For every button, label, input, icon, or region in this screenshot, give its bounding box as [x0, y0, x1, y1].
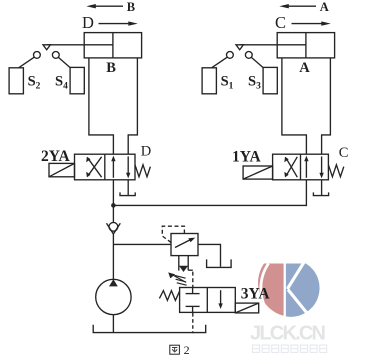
svg-text:JLCK.CN: JLCK.CN: [250, 323, 326, 345]
svg-text:S4: S4: [55, 73, 68, 91]
limit switch box S1: [202, 68, 216, 94]
svg-text:C: C: [339, 145, 349, 161]
node P junction: [111, 203, 116, 208]
wire pipe cylinder A right port to valve: [322, 58, 331, 154]
lever to switch S1: [212, 57, 227, 67]
wire arrow D direction: [99, 21, 138, 25]
wire arrow B direction: [86, 4, 123, 8]
relief valve lower stage: [179, 256, 193, 272]
svg-text:A: A: [320, 0, 329, 14]
limit switch box S2: [9, 68, 23, 94]
solenoid 3YA: [235, 303, 258, 313]
wire branch to relief valve: [113, 243, 171, 245]
wire pipe cylinder B right port to valve: [128, 58, 137, 154]
wire relief valve outlet to tank: [198, 244, 221, 266]
lever to switch S2: [19, 57, 34, 67]
directional valve 1YA body: [273, 154, 329, 180]
relief valve pilot line (dashed): [162, 226, 184, 242]
limit switch box S3: [263, 67, 277, 93]
valve 1YA parallel-flow arrows (right square): [304, 156, 324, 179]
unloading valve 3YA body: [180, 288, 236, 313]
svg-text:S3: S3: [248, 73, 261, 91]
svg-text:D: D: [82, 13, 94, 32]
wire pipe cylinder A left port to valve: [282, 58, 307, 154]
directional valve 2YA body: [75, 154, 136, 180]
limit switch roller S1: [227, 52, 234, 59]
valve 3YA flow arrow (right square): [218, 290, 222, 309]
pump: [96, 279, 131, 314]
relief valve flow arrow: [175, 238, 195, 248]
figure caption: [170, 343, 190, 357]
wire valve 2YA tank port: [127, 180, 129, 196]
valve 3YA blocked ports (left square): [186, 288, 200, 313]
valve 2YA parallel-flow arrows (right square): [111, 156, 130, 179]
svg-text:A: A: [299, 60, 310, 76]
wire check valve to pump outlet: [112, 234, 114, 280]
limit switch roller S2: [34, 52, 41, 59]
check valve: [107, 222, 121, 234]
solenoid 1YA: [243, 166, 273, 179]
decorative watermark (not labelled further): [250, 263, 327, 353]
wire junction to valve 1YA P port: [113, 180, 306, 206]
cam dog on rod of cylinder B: [43, 45, 50, 50]
lever to switch S4: [58, 57, 70, 67]
limit switch roller S3: [245, 52, 252, 59]
limit switch roller S4: [52, 52, 59, 59]
tank symbol under valve 1YA: [313, 192, 328, 195]
wire valve 1YA tank port: [321, 180, 323, 196]
svg-text:1YA: 1YA: [232, 149, 262, 166]
lever to switch S3: [251, 57, 263, 67]
spring of valve 3YA: [159, 291, 179, 301]
tank symbol at relief valve outlet: [207, 259, 232, 267]
svg-text:B: B: [127, 0, 135, 14]
tank symbol under valve 2YA: [120, 192, 135, 195]
valve 2YA crossed-flow arrows (left square): [86, 157, 101, 178]
svg-text:S1: S1: [221, 73, 234, 91]
cylinder A: [240, 33, 335, 58]
relief valve adjustable spring: [168, 272, 186, 285]
cam dog on rod of cylinder A: [236, 45, 243, 50]
wire dashed drain of 3YA to tank: [192, 313, 194, 333]
spring of valve 2YA: [135, 165, 150, 177]
wire pump suction to tank: [112, 315, 114, 333]
svg-text:3YA: 3YA: [241, 286, 271, 303]
svg-text:C: C: [275, 13, 286, 32]
wire arrow A direction: [279, 4, 316, 8]
svg-text:S2: S2: [28, 73, 41, 91]
svg-text:2YA: 2YA: [41, 148, 71, 165]
spring of valve 1YA: [328, 165, 343, 177]
wire pipe cylinder B left port to valve: [89, 58, 114, 154]
solenoid 2YA: [49, 163, 75, 176]
valve 1YA crossed-flow arrows (left square): [284, 157, 297, 178]
relief valve body: [171, 234, 198, 256]
cylinder B: [47, 33, 142, 58]
wire valve 2YA P port down to junction: [112, 180, 114, 206]
wire junction down to check valve: [112, 205, 114, 224]
svg-text:B: B: [106, 60, 116, 76]
svg-text:D: D: [141, 144, 151, 160]
wire pilot dashed: relief to 3YA valve: [192, 272, 194, 288]
svg-text:2: 2: [184, 343, 190, 357]
tank (reservoir): [93, 325, 206, 333]
limit switch box S4: [70, 67, 84, 93]
wire arrow C direction: [292, 21, 331, 25]
